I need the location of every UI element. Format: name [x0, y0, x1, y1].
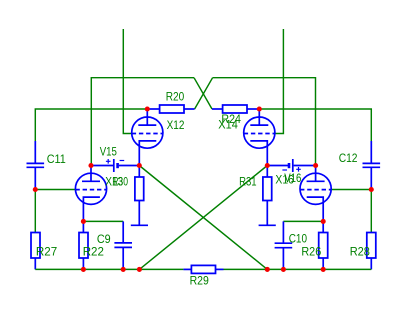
junction dot: diagonal to bottom rail right [265, 267, 270, 272]
resistor R31 [259, 166, 276, 226]
svg-text:C10: C10 [289, 231, 308, 245]
wire: C10 lower lead [282, 248, 284, 270]
wire: R28 lower lead [370, 258, 372, 269]
wire: R20 left lead from plate node [147, 108, 159, 110]
wire: bottom rail left of R29 [35, 268, 183, 270]
capacitor C10 [275, 243, 293, 248]
resistor R20 [160, 105, 184, 113]
wire: crossing diagonal from R20 up to right horizontal [195, 78, 213, 109]
wire: right grid input vertical to X14 grid [275, 29, 284, 134]
wire: bottom rail right of R29 [224, 268, 372, 270]
resistor R28 [367, 233, 376, 259]
wire: X12 plate node horizontal to C11 top corner [35, 109, 147, 141]
wire: R26 upper lead [322, 221, 324, 232]
junction dot: X12 cathode / V15 minus / R30 [137, 163, 142, 168]
resistor R24 [223, 105, 247, 113]
junction dot: X13 plate / V15 plus [88, 163, 93, 168]
wire: X14 plate node horizontal to C12 top corner [259, 109, 371, 141]
svg-text:R28: R28 [350, 244, 370, 258]
junction dot: R26 bottom [321, 267, 326, 272]
svg-text:R22: R22 [83, 245, 105, 259]
capacitor C9 [114, 243, 132, 248]
wire: left grid input vertical to X12 grid [123, 29, 132, 134]
junction dot: X13 cathode / R22 / C9 [81, 219, 86, 224]
junction dot: C12 / X16 grid / R28 [369, 187, 374, 192]
resistor R29 [191, 265, 215, 273]
wire: C11 lower lead to grid node [34, 167, 36, 189]
capacitor C12 [363, 163, 381, 167]
wire: C11 upper lead blue [34, 141, 36, 163]
wire: C12 lower lead to grid node [370, 167, 372, 189]
svg-text:R29: R29 [190, 273, 209, 287]
wire: X13 cathode node to C9 [83, 220, 123, 222]
svg-text:C12: C12 [339, 151, 358, 165]
wire: R20 lead to crossing [184, 108, 195, 110]
wire: C11 node down to R27 [34, 190, 36, 233]
triode X13 [75, 166, 106, 222]
junction dot: X16 cathode / R26 / C10 [321, 219, 326, 224]
wire: R27 lower lead [34, 258, 36, 269]
svg-text:R30: R30 [112, 174, 128, 188]
wire: X13 grid to C11 node [35, 189, 75, 191]
junction dot: X14 cathode / V16 minus / R31 [265, 163, 270, 168]
wire: C12 node down to R28 [370, 190, 372, 233]
wire: R29 left lead [183, 268, 191, 270]
svg-text:X16: X16 [275, 173, 294, 187]
wire: C12 upper lead blue [370, 141, 372, 163]
svg-text:X12: X12 [167, 118, 185, 132]
triode X12 [132, 109, 163, 166]
wire: C9 upper lead [122, 221, 124, 243]
svg-text:R31: R31 [239, 175, 257, 189]
wire: C10 upper lead [282, 221, 284, 243]
svg-text:C11: C11 [47, 152, 66, 166]
wire: crossing diagonal upper-left to R24 [194, 78, 212, 109]
svg-text:R24: R24 [221, 112, 241, 126]
wire: X16 grid to C12 node [331, 189, 371, 191]
battery V15 [91, 159, 139, 172]
svg-text:R27: R27 [36, 245, 58, 259]
triode X16 [300, 166, 331, 222]
wire: big X diagonal from V15 node to bottom right [139, 166, 267, 270]
svg-text:R20: R20 [166, 90, 185, 104]
junction dot: C9 bottom [121, 267, 126, 272]
resistor R27 [31, 233, 40, 259]
wire: upper horizontal right to X16 plate node [213, 78, 316, 166]
junction dot: X16 plate / V16 plus [313, 163, 318, 168]
junction dot: X14 plate node [257, 106, 262, 111]
svg-text:V15: V15 [100, 144, 117, 158]
wire: R29 right lead [216, 268, 224, 270]
wire: R22 upper lead [82, 221, 84, 232]
capacitor C11 [27, 163, 45, 167]
junction dot: C10 bottom [281, 267, 286, 272]
battery V16 [267, 159, 315, 172]
wire: R24 lead to crossing [212, 108, 223, 110]
wire: R22 lower lead [82, 258, 84, 269]
wire: R26 lower lead [322, 258, 324, 269]
junction dot: C11 / X13 grid / R27 [33, 187, 38, 192]
wire: X16 cathode node to C10 [283, 220, 323, 222]
triode X14 [244, 109, 275, 166]
svg-text:R26: R26 [301, 244, 321, 258]
wire: R24 right lead to X14 plate node [247, 108, 259, 110]
junction dot: X12 plate node [145, 106, 150, 111]
wire: X13 plate node vertical and upper horizontal to crossing [91, 78, 194, 166]
resistor R26 [319, 233, 328, 259]
resistor R30 [131, 166, 148, 226]
junction dot: R22 bottom [81, 267, 86, 272]
resistor R22 [79, 233, 88, 259]
junction dot: diagonal to bottom rail left [137, 267, 142, 272]
wire: C9 lower lead [122, 247, 124, 269]
wire: big X diagonal from V16 node to bottom left [139, 166, 267, 270]
